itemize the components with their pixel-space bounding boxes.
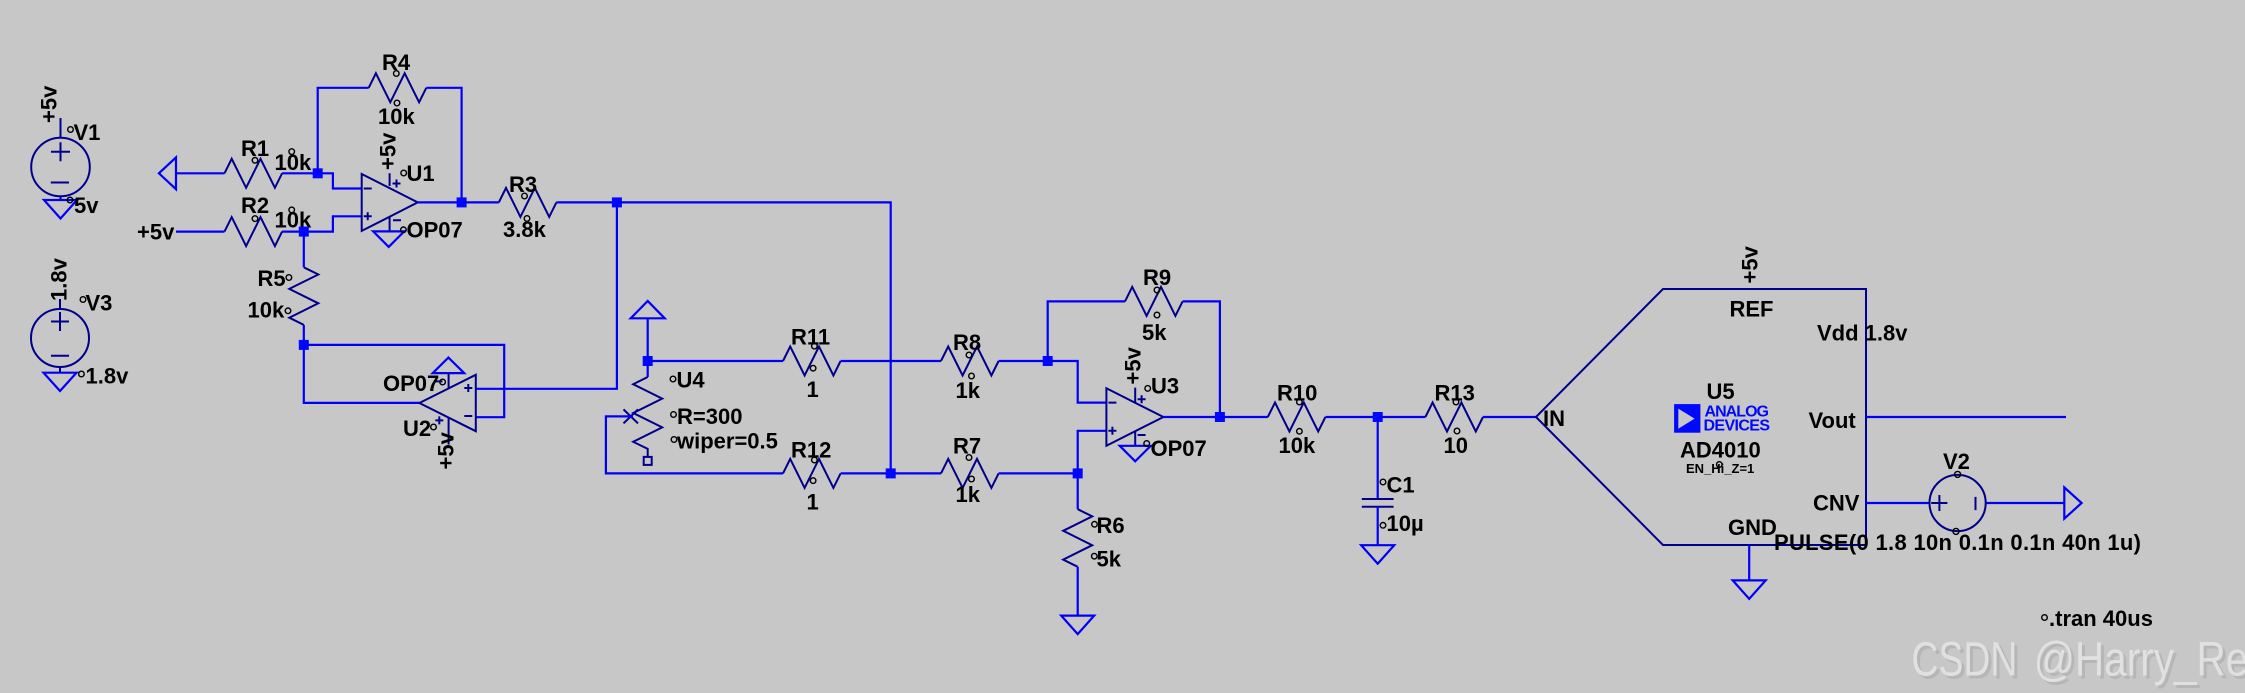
label U4 — [670, 368, 705, 393]
net flag arrow right of V2 — [2064, 487, 2081, 518]
label R6 — [1092, 513, 1125, 538]
spice directive .tran 40us — [2042, 606, 2153, 631]
ground at U1 V- pin — [373, 231, 404, 247]
svg-text:CSDN: CSDN — [1912, 633, 2018, 687]
wire — [176, 231, 225, 233]
wire — [891, 472, 941, 474]
wire R4 feedback left leg — [318, 88, 369, 174]
svg-text:Vout: Vout — [1809, 408, 1857, 433]
node at R7/R6/U3+ junction — [1073, 468, 1083, 478]
wire — [176, 172, 225, 174]
op-amp U1 — [362, 173, 418, 231]
resistor R2 — [225, 217, 283, 246]
label 3.8k — [503, 216, 547, 242]
label 1 (R11) — [807, 365, 819, 402]
svg-text:OP07: OP07 — [383, 371, 439, 396]
svg-text:+5v: +5v — [376, 132, 401, 170]
label R8 — [953, 330, 981, 358]
node at R12/R7 rail — [886, 468, 896, 478]
wire U4 wiper to bottom rail — [606, 416, 783, 473]
label R2 — [241, 193, 269, 221]
svg-text:R10: R10 — [1277, 381, 1317, 406]
node at R10/C1/R13 junction — [1373, 412, 1383, 422]
label 10 (R13) — [1444, 428, 1468, 458]
ground below V3 — [44, 373, 77, 391]
resistor R3 — [499, 188, 557, 217]
ground at U2 V- pin (pointing up) — [433, 358, 465, 374]
wire — [841, 472, 891, 474]
svg-text:IN: IN — [1543, 406, 1565, 431]
svg-text:10k: 10k — [275, 150, 312, 175]
wire U2 feedback upper (node to - input) — [304, 345, 504, 417]
node after R3 — [612, 197, 622, 207]
label R5 — [258, 266, 292, 291]
svg-text:R6: R6 — [1097, 513, 1125, 538]
label R7 — [953, 434, 981, 461]
wire — [999, 360, 1048, 362]
svg-text:U1: U1 — [407, 161, 435, 186]
wire U2 output leg — [304, 345, 420, 403]
wire U3 output — [1163, 416, 1220, 418]
svg-text:U4: U4 — [677, 368, 706, 393]
svg-text:R8: R8 — [953, 330, 981, 355]
svg-text:1: 1 — [807, 377, 819, 402]
label 10k (R2) — [275, 207, 312, 232]
svg-text:C1: C1 — [1387, 473, 1415, 498]
wire Vout — [1866, 416, 2066, 418]
label OP07 (U2) — [383, 371, 445, 396]
wire R3 node down to U2 + input — [476, 202, 617, 388]
label 5k (R9) — [1142, 312, 1167, 345]
svg-text:1k: 1k — [956, 482, 981, 507]
node at U3 output — [1215, 412, 1225, 422]
voltage source V3 — [31, 299, 89, 373]
wire R9 feedback right leg — [1183, 301, 1220, 417]
resistor R9 — [1125, 287, 1183, 316]
label V3 — [80, 291, 112, 316]
label U1 — [401, 161, 435, 186]
ADC U5 AD4010 body — [1536, 289, 1866, 545]
wire U5 GND pin — [1748, 545, 1750, 580]
resistor R12 — [783, 459, 841, 488]
resistor R11 — [783, 347, 841, 376]
op-amp U3 — [1106, 388, 1163, 446]
label 10k (R10) — [1279, 429, 1316, 459]
label R=300 — [671, 404, 743, 429]
label 10k (R5) — [248, 298, 291, 323]
resistor R10 — [1268, 403, 1326, 432]
node at R8/R9 junction — [1043, 356, 1053, 366]
label 10u — [1380, 511, 1423, 536]
resistor R13 — [1425, 403, 1483, 432]
svg-text:U5: U5 — [1707, 379, 1735, 404]
svg-text:+5v: +5v — [434, 431, 459, 469]
label 1 (R12) — [807, 478, 819, 515]
wire — [282, 172, 318, 174]
label 1k (R7) — [956, 476, 981, 507]
wire — [648, 360, 783, 362]
watermark CSDN @Harry_Re — [1912, 633, 2245, 689]
svg-text:R3: R3 — [509, 172, 537, 197]
svg-text:R13: R13 — [1435, 381, 1475, 406]
label C1 — [1380, 473, 1414, 498]
resistor R8 — [941, 347, 999, 376]
label 5k (R6) — [1092, 547, 1122, 572]
node at R2/R5 junction — [299, 227, 309, 237]
label OP07 (U1) — [401, 218, 463, 243]
svg-text:R9: R9 — [1143, 265, 1171, 290]
svg-text:Vdd 1.8v: Vdd 1.8v — [1817, 321, 1908, 346]
svg-text:10µ: 10µ — [1387, 511, 1424, 536]
svg-text:OP07: OP07 — [1151, 436, 1207, 461]
capacitor C1 — [1362, 417, 1394, 545]
wire — [556, 201, 617, 203]
wire — [1986, 502, 2065, 504]
label EN_Hi_Z=1 — [1686, 461, 1754, 476]
label V1 — [68, 120, 101, 145]
ground below V1 — [44, 200, 77, 219]
wire R9 feedback left leg — [1048, 301, 1125, 361]
svg-text:10k: 10k — [1279, 433, 1316, 458]
svg-text:OP07: OP07 — [407, 218, 463, 243]
ground below U5 — [1733, 580, 1766, 599]
wire — [462, 201, 499, 203]
svg-text:1.8v: 1.8v — [47, 257, 72, 301]
svg-text:wiper=0.5: wiper=0.5 — [676, 429, 778, 454]
svg-text:R7: R7 — [953, 434, 981, 459]
svg-text:1k: 1k — [956, 378, 981, 403]
label 10k (R4) — [378, 100, 415, 129]
net flag arrow above U4 — [631, 301, 665, 318]
Analog Devices logo — [1674, 403, 1770, 434]
label U3 — [1145, 374, 1179, 399]
wire — [1483, 416, 1536, 418]
node at U1 output — [457, 197, 467, 207]
svg-text:1.8v: 1.8v — [86, 364, 130, 389]
label R9 — [1143, 265, 1171, 293]
wire R1 node to U1 inverting input — [318, 173, 362, 188]
ground below R6 — [1061, 616, 1094, 635]
svg-text:5k: 5k — [1142, 320, 1167, 345]
resistor R4 — [369, 73, 427, 102]
svg-text:+5v: +5v — [1738, 245, 1763, 283]
label R1 — [241, 136, 269, 163]
svg-text:DEVICES: DEVICES — [1704, 418, 1771, 435]
svg-text:EN_Hi_Z=1: EN_Hi_Z=1 — [1686, 461, 1754, 476]
node at R5 bottom / U2 output net — [299, 340, 309, 350]
svg-text:R11: R11 — [791, 325, 830, 350]
svg-text:5v: 5v — [74, 193, 99, 218]
label 10k (R1) — [275, 149, 312, 175]
resistor R6 — [1063, 473, 1092, 615]
svg-text:1: 1 — [807, 490, 819, 515]
svg-text:3.8k: 3.8k — [503, 217, 547, 242]
wire CNV to V2 — [1866, 502, 1930, 504]
resistor R1 — [225, 159, 283, 188]
label R10 — [1277, 381, 1317, 406]
op-amp U2 (mirrored) — [419, 373, 475, 444]
wire R4 feedback right leg — [426, 88, 461, 203]
svg-text:R2: R2 — [241, 193, 269, 218]
svg-text:5k: 5k — [1097, 547, 1122, 572]
label R4 — [382, 50, 411, 76]
svg-text:V1: V1 — [74, 120, 101, 145]
label OP07 (U3) — [1144, 436, 1207, 461]
wire — [647, 318, 649, 361]
wire U3 - input — [1048, 361, 1107, 403]
node at R1/R4 junction — [313, 168, 323, 178]
svg-text:REF: REF — [1730, 297, 1774, 322]
label 5v — [67, 193, 99, 218]
svg-text:.tran 40us: .tran 40us — [2049, 606, 2153, 631]
label R13 — [1435, 381, 1475, 406]
svg-text:+5v: +5v — [137, 220, 175, 245]
label R12 — [791, 438, 831, 463]
svg-text:R4: R4 — [382, 50, 411, 75]
svg-text:V3: V3 — [86, 291, 113, 316]
label wiper=0.5 — [671, 429, 778, 454]
svg-text:AD4010: AD4010 — [1680, 438, 1761, 463]
svg-text:R1: R1 — [241, 136, 269, 161]
wire U1 output — [418, 201, 462, 203]
svg-text:R12: R12 — [791, 438, 831, 463]
wire U3 + input — [1078, 431, 1107, 474]
svg-text:V2: V2 — [1943, 449, 1970, 474]
svg-text:@Harry_Re: @Harry_Re — [2034, 634, 2245, 687]
svg-text:10k: 10k — [248, 298, 285, 323]
resistor R5 — [289, 232, 318, 345]
svg-text:R=300: R=300 — [677, 404, 742, 429]
ground below C1 — [1361, 545, 1394, 564]
label 1.8v — [79, 364, 129, 389]
wire — [1378, 416, 1426, 418]
wire — [1220, 416, 1268, 418]
svg-text:PULSE(0 1.8 10n 0.1n 0.1n 40n: PULSE(0 1.8 10n 0.1n 0.1n 40n 1u) — [1774, 530, 2141, 555]
voltage source V2 — [1930, 471, 1986, 534]
svg-text:10k: 10k — [378, 104, 415, 129]
svg-text:CNV: CNV — [1813, 491, 1860, 516]
input net flag arrow (left of R1) — [159, 157, 176, 189]
svg-text:+5v: +5v — [1121, 346, 1146, 384]
label 1k (R8) — [956, 373, 981, 403]
svg-text:GND: GND — [1728, 515, 1777, 540]
wire — [1325, 416, 1377, 418]
ground at U3 V- pin — [1120, 446, 1151, 462]
wire R2 node to U1 non-inverting input — [304, 216, 362, 231]
svg-text:U2: U2 — [403, 416, 431, 441]
label R3 — [509, 172, 537, 199]
svg-text:10: 10 — [1444, 433, 1468, 458]
wire — [841, 360, 941, 362]
wire — [282, 231, 304, 233]
wire R3 node to R12 rail — [617, 202, 891, 473]
wire — [999, 472, 1078, 474]
label R11 — [791, 325, 830, 350]
voltage source V1 — [31, 118, 90, 200]
svg-text:U3: U3 — [1151, 374, 1179, 399]
svg-text:+5v: +5v — [37, 85, 62, 123]
label U2 — [403, 416, 436, 441]
node at U4 top — [643, 356, 653, 366]
potentiometer U4 — [624, 361, 663, 465]
svg-text:R5: R5 — [258, 266, 286, 291]
resistor R7 — [941, 459, 999, 488]
